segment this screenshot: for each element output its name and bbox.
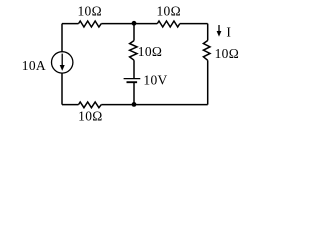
battery V1 plate long [124,78,141,80]
wire right vertical upper [207,24,209,41]
current arrow I [218,25,220,33]
wire left vertical lower [61,73,63,105]
svg-text:10Ω: 10Ω [77,4,101,19]
wire middle vertical between resistor and battery [133,60,135,78]
svg-text:10Ω: 10Ω [78,109,102,124]
wire left vertical upper [61,24,63,52]
resistor R5 (bottom 10 ohm) [79,102,102,108]
wire middle vertical lower [133,82,135,104]
svg-text:10Ω: 10Ω [215,46,239,61]
resistor R4 (right 10 ohm vertical) [203,41,210,61]
resistor R1 (top-left 10 ohm) [79,21,102,27]
svg-text:10Ω: 10Ω [138,44,162,59]
svg-text:10V: 10V [143,72,167,87]
resistor R3 (middle 10 ohm vertical) [130,41,137,61]
wire right vertical lower [207,60,209,104]
wire top-left horizontal [62,23,79,25]
node bottom junction dot [132,102,137,107]
wire top-middle horizontal [101,23,157,25]
wire bottom-right horizontal [101,104,207,106]
current source I1 arrow [61,54,63,66]
svg-text:10A: 10A [22,58,46,73]
wire middle vertical upper [133,24,135,41]
wire bottom-left horizontal [62,104,79,106]
svg-text:I: I [226,24,231,39]
wire top-right horizontal [180,23,208,25]
battery V1 plate short [127,81,138,83]
resistor R2 (top-right 10 ohm) [157,21,180,27]
node top junction dot [132,21,137,26]
svg-text:10Ω: 10Ω [156,4,180,19]
current source I1 circle [52,52,73,73]
